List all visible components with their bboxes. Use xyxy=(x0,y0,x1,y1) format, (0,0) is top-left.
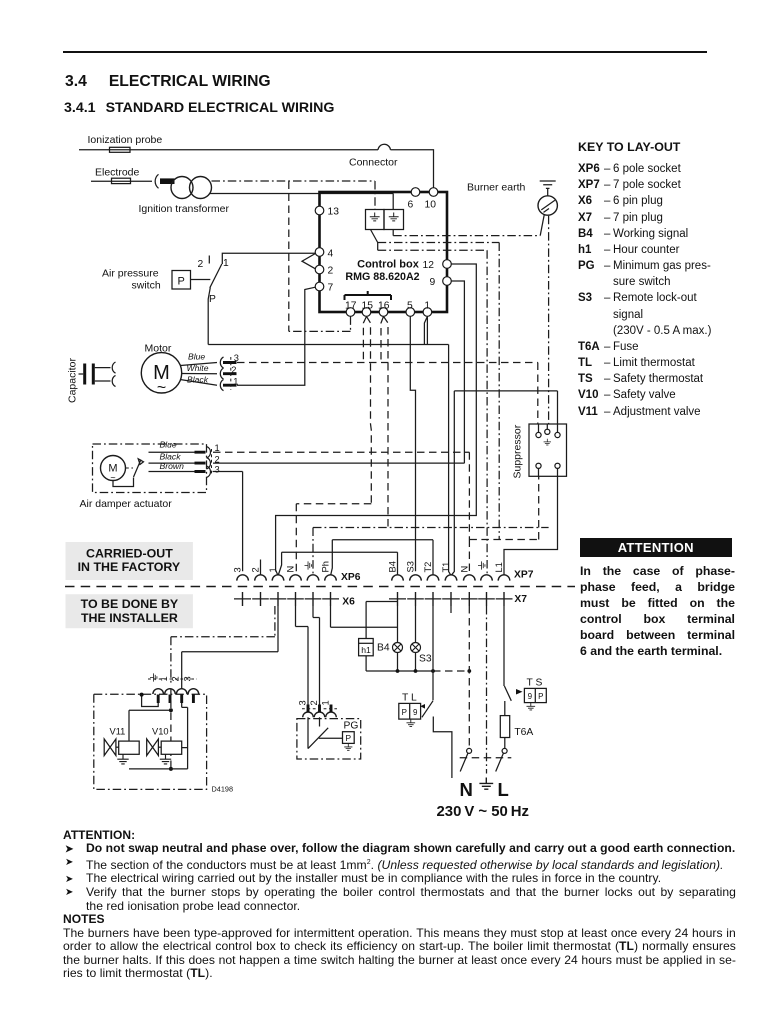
svg-text:XP7: XP7 xyxy=(514,570,534,581)
svg-text:16: 16 xyxy=(378,301,390,312)
svg-text:Suppressor: Suppressor xyxy=(512,424,524,478)
svg-text:Ph: Ph xyxy=(321,561,331,572)
svg-text:Motor: Motor xyxy=(145,343,172,355)
svg-text:7: 7 xyxy=(328,283,334,294)
svg-text:1: 1 xyxy=(268,567,278,572)
svg-text:Connector: Connector xyxy=(349,157,398,169)
svg-text:15: 15 xyxy=(362,301,374,312)
svg-text:2: 2 xyxy=(171,676,181,681)
svg-text:S3: S3 xyxy=(406,561,416,572)
svg-text:TO BE DONE BY: TO BE DONE BY xyxy=(81,597,179,611)
svg-text:RMG 88.620A2: RMG 88.620A2 xyxy=(345,271,419,283)
svg-text:X7: X7 xyxy=(514,594,527,605)
svg-text:~: ~ xyxy=(157,380,166,397)
svg-text:T S: T S xyxy=(527,678,543,689)
svg-text:N: N xyxy=(460,779,473,800)
svg-text:White: White xyxy=(187,363,209,373)
svg-text:Capacitor: Capacitor xyxy=(67,358,79,403)
svg-text:3: 3 xyxy=(233,567,243,572)
svg-text:T1: T1 xyxy=(441,562,451,573)
svg-text:4: 4 xyxy=(328,249,334,260)
svg-text:X6: X6 xyxy=(342,597,355,608)
svg-text:Blue: Blue xyxy=(160,440,177,450)
svg-text:Brown: Brown xyxy=(160,461,185,471)
svg-text:2: 2 xyxy=(309,700,319,705)
svg-text:T6A: T6A xyxy=(514,727,533,738)
svg-text:1: 1 xyxy=(215,443,220,453)
svg-text:13: 13 xyxy=(328,207,340,218)
svg-text:V10: V10 xyxy=(152,727,169,737)
svg-text:2: 2 xyxy=(328,266,334,277)
svg-text:230 V ~ 50 Hz: 230 V ~ 50 Hz xyxy=(437,804,529,820)
svg-text:THE INSTALLER: THE INSTALLER xyxy=(81,611,178,625)
svg-text:5: 5 xyxy=(407,301,413,312)
svg-text:L: L xyxy=(498,779,509,800)
svg-text:1: 1 xyxy=(159,676,169,681)
svg-text:switch: switch xyxy=(132,280,161,292)
svg-text:CARRIED-OUT: CARRIED-OUT xyxy=(86,546,173,560)
svg-text:Air pressure: Air pressure xyxy=(102,268,159,280)
svg-text:P: P xyxy=(178,276,185,288)
svg-text:2: 2 xyxy=(231,365,236,375)
svg-text:h1: h1 xyxy=(361,645,371,655)
svg-text:N: N xyxy=(286,566,296,573)
svg-text:S3: S3 xyxy=(419,654,432,665)
svg-text:P: P xyxy=(345,733,351,743)
svg-text:12: 12 xyxy=(423,260,435,271)
svg-text:P: P xyxy=(538,692,543,701)
svg-text:6: 6 xyxy=(408,200,414,211)
svg-text:1: 1 xyxy=(223,258,229,269)
svg-text:3: 3 xyxy=(234,353,239,363)
svg-text:1: 1 xyxy=(321,700,331,705)
svg-text:Air damper actuator: Air damper actuator xyxy=(80,498,173,510)
svg-text:Ionization probe: Ionization probe xyxy=(88,134,163,146)
svg-text:Blue: Blue xyxy=(188,352,205,362)
svg-text:9: 9 xyxy=(413,708,418,717)
svg-text:Burner earth: Burner earth xyxy=(467,182,526,194)
svg-text:2: 2 xyxy=(251,567,261,572)
svg-text:3: 3 xyxy=(182,676,192,681)
svg-text:9: 9 xyxy=(528,692,533,701)
svg-text:1: 1 xyxy=(233,376,238,386)
svg-text:B4: B4 xyxy=(377,643,390,654)
svg-text:Black: Black xyxy=(187,375,209,385)
svg-text:17: 17 xyxy=(345,301,357,312)
svg-text:L1: L1 xyxy=(494,562,504,572)
svg-text:XP6: XP6 xyxy=(341,572,361,583)
svg-text:IN THE FACTORY: IN THE FACTORY xyxy=(78,560,181,574)
svg-text:2: 2 xyxy=(198,259,204,270)
svg-text:9: 9 xyxy=(430,277,436,288)
svg-text:D4198: D4198 xyxy=(212,785,234,794)
svg-text:3: 3 xyxy=(215,464,220,474)
svg-text:2: 2 xyxy=(215,454,220,464)
svg-text:Control box: Control box xyxy=(357,259,420,271)
svg-text:Electrode: Electrode xyxy=(95,167,140,179)
svg-text:1: 1 xyxy=(424,301,430,312)
svg-text:B4: B4 xyxy=(388,561,398,572)
svg-text:T L: T L xyxy=(402,693,417,704)
svg-text:3: 3 xyxy=(298,700,308,705)
svg-text:T2: T2 xyxy=(423,562,433,573)
svg-text:N: N xyxy=(459,566,469,573)
svg-text:Ignition transformer: Ignition transformer xyxy=(139,203,230,215)
svg-text:P: P xyxy=(209,294,216,305)
svg-text:Black: Black xyxy=(160,452,182,462)
svg-text:10: 10 xyxy=(425,200,437,211)
svg-text:V11: V11 xyxy=(110,727,126,737)
svg-text:PG: PG xyxy=(344,721,359,732)
svg-text:P: P xyxy=(402,708,407,717)
